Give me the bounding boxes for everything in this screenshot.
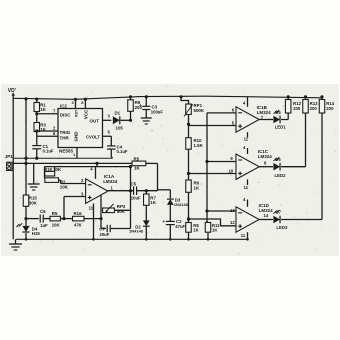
svg-text:D7: D7 [276, 209, 282, 214]
svg-text:1K: 1K [194, 185, 200, 190]
svg-text:0.1uF: 0.1uF [117, 149, 128, 154]
svg-text:1K: 1K [193, 228, 198, 233]
svg-text:10K: 10K [52, 222, 60, 227]
svg-text:47K: 47K [74, 222, 82, 227]
svg-text:100uF: 100uF [151, 110, 164, 115]
svg-text:11: 11 [244, 137, 249, 142]
svg-text:10: 10 [229, 169, 234, 174]
svg-text:200: 200 [310, 106, 318, 111]
svg-text:1K: 1K [40, 107, 46, 112]
svg-text:1K: 1K [134, 166, 140, 171]
svg-text:R5: R5 [134, 156, 140, 161]
svg-text:GND: GND [74, 131, 79, 142]
svg-text:LED1: LED1 [275, 124, 287, 129]
svg-text:1K: 1K [212, 228, 217, 233]
svg-text:14: 14 [264, 213, 269, 218]
svg-text:LED3: LED3 [276, 225, 288, 230]
svg-text:THR: THR [60, 135, 70, 140]
svg-text:H15: H15 [32, 231, 41, 236]
svg-text:OUT: OUT [90, 118, 100, 123]
svg-text:JP1: JP1 [5, 154, 13, 159]
svg-text:R5: R5 [52, 211, 58, 216]
svg-text:500K: 500K [194, 108, 205, 113]
svg-text:13: 13 [230, 208, 235, 213]
svg-text:+: + [139, 104, 142, 109]
svg-text:VCC: VCC [84, 109, 89, 119]
svg-text:NE555: NE555 [59, 148, 73, 153]
svg-text:12: 12 [230, 220, 235, 225]
svg-text:DISC: DISC [60, 112, 72, 117]
svg-text:1uF: 1uF [40, 223, 48, 228]
svg-text:50K: 50K [117, 209, 126, 214]
svg-text:R16: R16 [74, 211, 83, 216]
svg-text:1N4148: 1N4148 [129, 229, 144, 234]
svg-text:LM324: LM324 [257, 110, 272, 115]
svg-text:1K: 1K [150, 200, 156, 205]
svg-text:TRIG: TRIG [60, 130, 71, 135]
svg-text:105: 105 [116, 125, 124, 130]
svg-text:+: + [162, 220, 165, 225]
svg-text:200: 200 [293, 106, 301, 111]
svg-text:LM324: LM324 [258, 154, 273, 159]
svg-text:10uF: 10uF [131, 195, 141, 200]
svg-text:20uF: 20uF [100, 232, 110, 237]
svg-text:C7: C7 [99, 226, 105, 231]
svg-text:1N4148: 1N4148 [174, 202, 189, 207]
svg-text:CVOLT: CVOLT [86, 134, 100, 139]
svg-text:11: 11 [241, 233, 246, 238]
svg-text:VD’: VD’ [8, 88, 17, 94]
svg-text:LM324: LM324 [103, 179, 118, 184]
svg-text:D5: D5 [275, 110, 281, 115]
svg-text:D1: D1 [115, 110, 121, 115]
svg-text:RST: RST [75, 109, 79, 117]
svg-text:47uF: 47uF [175, 224, 185, 229]
svg-text:C5: C5 [131, 181, 137, 186]
svg-text:11: 11 [89, 206, 94, 211]
svg-text:11: 11 [244, 185, 249, 190]
svg-text:30K: 30K [29, 200, 38, 205]
svg-text:1.5K: 1.5K [194, 143, 204, 148]
svg-text:LED2: LED2 [275, 173, 287, 178]
svg-text:0.1uF: 0.1uF [43, 148, 54, 153]
svg-text:10K: 10K [60, 184, 69, 189]
svg-text:200: 200 [326, 106, 334, 111]
svg-text:IC2: IC2 [60, 104, 67, 109]
svg-text:C6: C6 [40, 209, 46, 214]
svg-text:D6: D6 [275, 157, 281, 162]
